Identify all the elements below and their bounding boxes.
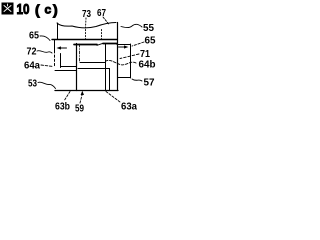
horizontal line H2 right bbox=[103, 43, 117, 45]
horizontal line H2 outer bbox=[117, 44, 131, 46]
leader 64b bbox=[105, 60, 136, 64]
right main wall bbox=[117, 23, 119, 91]
svg-text:57: 57 bbox=[144, 78, 155, 89]
horizontal line H2 step bbox=[97, 43, 103, 45]
horizontal line H2 left bbox=[74, 44, 97, 46]
leader 64a bbox=[41, 65, 53, 67]
leader 72 bbox=[37, 51, 52, 53]
leader 55 bbox=[121, 24, 142, 27]
svg-text:64a: 64a bbox=[24, 61, 40, 72]
center dash-dot line bbox=[79, 44, 81, 62]
svg-text:64b: 64b bbox=[139, 60, 156, 71]
leader 63b bbox=[64, 92, 70, 102]
lower ledge line left bbox=[55, 70, 77, 72]
svg-text:53: 53 bbox=[28, 79, 37, 90]
channel wall bbox=[109, 69, 111, 91]
leader 71 bbox=[120, 54, 139, 59]
leader 65 right bbox=[132, 42, 144, 46]
slot bottom horizontal bbox=[78, 68, 110, 70]
svg-text:67: 67 bbox=[97, 8, 106, 19]
svg-text:10: 10 bbox=[17, 1, 30, 18]
upper-left vertical edge bbox=[57, 23, 59, 40]
slot top horizontal bbox=[80, 62, 106, 64]
left wall solid part bbox=[54, 40, 56, 54]
inner wall right bbox=[105, 44, 107, 91]
header kanji 図 bbox=[2, 3, 14, 15]
svg-text:71: 71 bbox=[140, 49, 150, 60]
leader 57 bbox=[132, 79, 142, 81]
leader 53 bbox=[38, 82, 56, 88]
left wall hidden part bbox=[54, 55, 56, 67]
svg-text:65: 65 bbox=[29, 31, 39, 42]
leader 67 bbox=[103, 17, 109, 25]
svg-text:): ) bbox=[53, 2, 58, 18]
bottom line bbox=[55, 90, 118, 92]
right shelf bbox=[118, 77, 131, 79]
arrow left bbox=[60, 47, 67, 49]
horizontal line H1 bbox=[52, 39, 117, 41]
inner wall left bbox=[76, 44, 78, 91]
hidden channel edge right bbox=[101, 30, 103, 40]
wave break line top bbox=[57, 23, 116, 28]
svg-text:59: 59 bbox=[75, 104, 84, 115]
leader 63a bbox=[106, 92, 120, 103]
svg-text:63a: 63a bbox=[121, 102, 137, 113]
svg-text:65: 65 bbox=[145, 36, 156, 47]
right outer wall bbox=[130, 44, 132, 78]
hidden channel edge left bbox=[85, 30, 87, 40]
leader 73 bbox=[85, 18, 88, 28]
ledge horizontal left bbox=[61, 66, 77, 68]
svg-text:c: c bbox=[45, 3, 52, 17]
leader 59 arrow up bbox=[80, 95, 82, 103]
leader 65 left bbox=[40, 36, 50, 41]
arrow right bbox=[119, 46, 127, 48]
svg-text:73: 73 bbox=[82, 9, 91, 20]
left step vertical bbox=[60, 54, 62, 68]
svg-text:72: 72 bbox=[27, 47, 37, 58]
svg-text:55: 55 bbox=[143, 23, 154, 34]
svg-text:(: ( bbox=[35, 2, 40, 18]
svg-text:63b: 63b bbox=[55, 102, 70, 113]
